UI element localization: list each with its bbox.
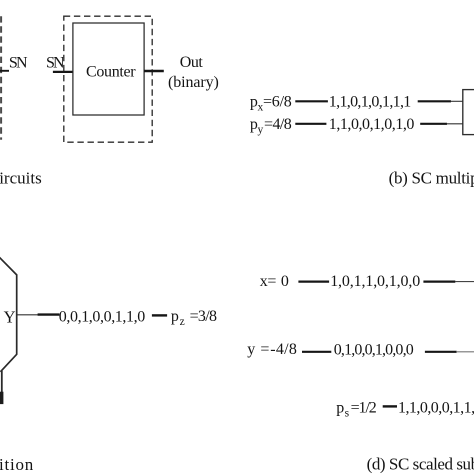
svg-text:0,1,0,0,1,0,0,0: 0,1,0,0,1,0,0,0 [334, 341, 414, 358]
svg-text:=: = [267, 273, 276, 290]
svg-text:1,1,0,1,0,1,1,1: 1,1,0,1,0,1,1,1 [329, 94, 412, 111]
svg-text:SN: SN [9, 55, 28, 72]
counter U1 box [73, 23, 144, 115]
wire mux select [1, 371, 3, 393]
wire bitstream y to circuit (clipped) [425, 351, 457, 353]
wire thin continuation [455, 281, 474, 283]
svg-text:=: = [260, 341, 269, 358]
panel (a) SN-to-binary conversion circuit [0, 16, 219, 187]
svg-text:Out: Out [180, 54, 204, 71]
svg-text:=4/8: =4/8 [264, 116, 292, 133]
svg-text:=6/8: =6/8 [263, 94, 292, 111]
svg-text:(d) SC scaled sub: (d) SC scaled sub [367, 455, 474, 474]
wire px to bitstream [295, 100, 328, 102]
svg-text:1,1,0,0,1,0,1,0: 1,1,0,0,1,0,1,0 [329, 116, 415, 133]
svg-text:=3/8: =3/8 [190, 308, 217, 325]
svg-text:p: p [171, 308, 179, 325]
panel (d) SC scaled subtraction [247, 273, 474, 474]
wire py to bitstream [295, 123, 326, 125]
wire bitstream to pz [152, 314, 167, 316]
svg-text:1,1,0,0,0,1,1,1,: 1,1,0,0,0,1,1,1, [398, 399, 474, 416]
svg-text:y: y [247, 341, 255, 358]
svg-text:-4/8: -4/8 [270, 341, 297, 358]
panel (b) SC multiplication [250, 90, 474, 188]
wire gray thin continuation [456, 351, 474, 353]
svg-text:y: y [258, 124, 264, 136]
svg-text:0: 0 [281, 273, 289, 290]
panel (c) SC scaled addition [0, 255, 217, 473]
wire thin segment into gate [451, 100, 464, 102]
svg-text:s: s [345, 407, 350, 419]
AND gate U2 box (clipped at right edge) [463, 90, 474, 135]
wire counter input [53, 71, 73, 73]
wire mux output thick [38, 313, 60, 315]
wire SN from generator [0, 70, 9, 72]
wire y to bitstream [302, 351, 331, 353]
svg-text:0,0,1,0,0,1,1,0: 0,0,1,0,0,1,1,0 [59, 309, 145, 326]
wire thin segment into gate [447, 123, 464, 125]
dashed box around counter [64, 16, 152, 142]
svg-text:Y: Y [4, 308, 16, 327]
wire bitstream px to AND gate [418, 100, 451, 102]
svg-text:ition: ition [0, 455, 34, 474]
svg-text:(binary): (binary) [168, 74, 219, 91]
svg-text:SN: SN [46, 55, 65, 72]
svg-text:z: z [180, 316, 185, 328]
svg-text:1,0,1,1,0,1,0,0: 1,0,1,1,0,1,0,0 [330, 273, 420, 290]
wire counter output [144, 70, 164, 72]
mux U3 body (clipped at left edge) [0, 255, 17, 371]
svg-text:=1/2: =1/2 [351, 399, 377, 416]
svg-text:(b) SC multip: (b) SC multip [389, 168, 474, 187]
svg-text:ircuits: ircuits [0, 169, 42, 188]
svg-text:Counter: Counter [86, 64, 136, 81]
wire x to bitstream [298, 281, 329, 283]
wire bitstream py to AND gate [420, 123, 447, 125]
wire ps to bitstream [383, 405, 397, 407]
dashed box right edge (clipped SN generator block) [0, 16, 2, 140]
wire bitstream x to circuit (clipped) [423, 281, 455, 283]
select wire bold mark (clipped) [0, 392, 3, 404]
wire mux output thin [18, 314, 39, 316]
svg-text:p: p [336, 399, 344, 416]
